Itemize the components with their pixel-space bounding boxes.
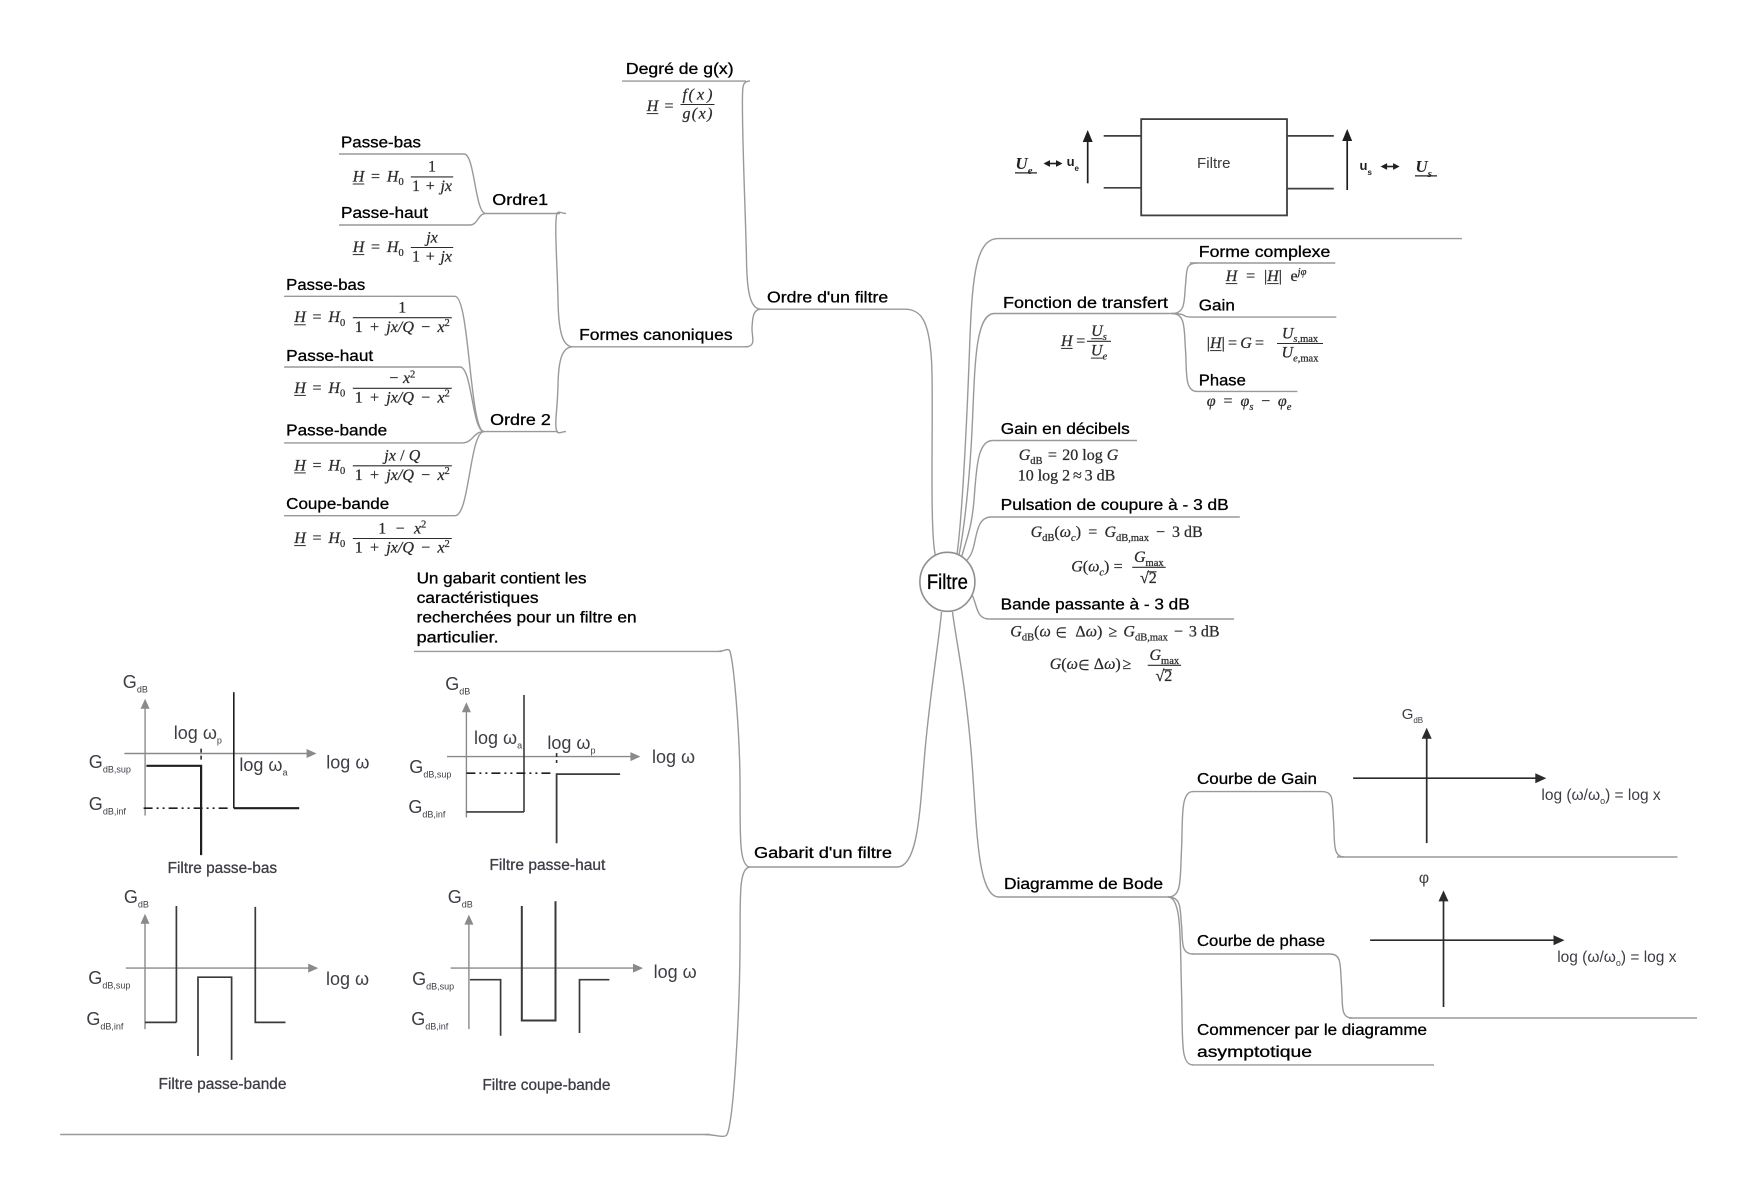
- svg-text:H: H: [1225, 268, 1239, 285]
- gabarit coupe-bande left pass boundary: [470, 980, 501, 1036]
- svg-text:−: −: [421, 390, 430, 407]
- edge Filtre to Bande passante: [968, 588, 989, 620]
- edge Gabarit to gabarit plots image node: [705, 867, 750, 1136]
- svg-text:Commencer par le diagramme: Commencer par le diagramme: [1197, 1022, 1427, 1039]
- svg-text:x: x: [436, 467, 444, 484]
- svg-text:+: +: [370, 540, 379, 557]
- underline node Commencer par le diagramme asymptotique: [1192, 1064, 1434, 1066]
- svg-text:φ: φ: [1241, 393, 1250, 410]
- svg-text:dB: dB: [1042, 533, 1054, 544]
- svg-text:Gain: Gain: [1199, 298, 1235, 315]
- svg-text:ω: ω: [1088, 559, 1099, 576]
- svg-text:e: e: [1287, 402, 1292, 413]
- svg-text:3 dB: 3 dB: [1189, 624, 1220, 641]
- svg-text:caractéristiques: caractéristiques: [417, 590, 539, 607]
- svg-text:Degré de g(x): Degré de g(x): [626, 61, 734, 78]
- svg-text:GdB: GdB: [448, 887, 473, 910]
- gabarit passe-bas tick log wp: [200, 749, 202, 762]
- edge Ordre1 to Passe-bas (ordre 1): [464, 154, 486, 214]
- svg-text:0: 0: [398, 177, 403, 188]
- svg-text:jx/Q: jx/Q: [384, 319, 414, 336]
- svg-text:(x): (x): [689, 86, 713, 103]
- edge Ordre d'un filtre to Degre de g(x): [742, 81, 761, 309]
- svg-text:Filtre coupe-bande: Filtre coupe-bande: [482, 1077, 610, 1094]
- svg-text:GdB,inf: GdB,inf: [89, 794, 127, 817]
- gabarit passe-bas stop-band horizontal: [234, 807, 299, 809]
- svg-text:Gain en décibels: Gain en décibels: [1001, 421, 1130, 438]
- svg-text:GdB: GdB: [123, 672, 148, 695]
- svg-text:Coupe-bande: Coupe-bande: [286, 496, 389, 513]
- svg-text:H: H: [293, 380, 307, 397]
- svg-text:jx: jx: [438, 178, 452, 195]
- gabarit passe-bande pass window: [198, 977, 232, 1060]
- gabarit coupe-bande stop window: [522, 901, 556, 1020]
- svg-text:≥: ≥: [1108, 624, 1117, 641]
- svg-text:log (ω/ωo) = log x: log (ω/ωo) = log x: [1541, 787, 1661, 806]
- svg-text:0: 0: [340, 318, 345, 329]
- edge Ordre 2 to Coupe-bande: [455, 432, 484, 516]
- svg-text:x: x: [436, 319, 444, 336]
- svg-text:log ω: log ω: [654, 962, 697, 982]
- svg-text:Passe-bande: Passe-bande: [286, 423, 387, 440]
- underline node Courbe de Gain: [1192, 791, 1322, 793]
- svg-text:e: e: [1102, 351, 1107, 362]
- svg-text:Phase: Phase: [1199, 372, 1246, 389]
- svg-text:1: 1: [398, 300, 406, 317]
- underline image node block diagram: [998, 238, 1462, 240]
- underline image node gain curve: [1337, 856, 1678, 858]
- svg-text:H: H: [293, 530, 307, 547]
- gabarit coupe-bande right pass boundary: [580, 980, 610, 1033]
- gabarit passe-haut vertical axis: [465, 711, 467, 817]
- edge Filtre to Fonction de transfert: [959, 314, 995, 556]
- underline node Diagramme de Bode: [999, 896, 1168, 898]
- gabarit passe-bas stop-band vertical at wa: [233, 692, 235, 808]
- gabarit passe-haut stop-band vertical at wa: [523, 695, 525, 812]
- svg-text:20 log: 20 log: [1062, 447, 1102, 464]
- formula passe-haut ordre1 fraction: [411, 247, 453, 249]
- svg-text:φ: φ: [1278, 393, 1287, 410]
- svg-text:Courbe de phase: Courbe de phase: [1197, 933, 1325, 950]
- svg-text:max: max: [1300, 354, 1319, 365]
- svg-text:recherchées pour un filtre en: recherchées pour un filtre en: [417, 610, 637, 627]
- svg-text:jφ: jφ: [1296, 267, 1307, 278]
- svg-text:0: 0: [340, 389, 345, 400]
- svg-text:0: 0: [398, 248, 403, 259]
- svg-text:): ): [1076, 524, 1081, 541]
- svg-text:Forme complexe: Forme complexe: [1199, 244, 1331, 261]
- svg-text:−: −: [421, 319, 430, 336]
- gabarit passe-haut dash-dot GdBsup level: [466, 772, 553, 774]
- svg-text:G: G: [1240, 335, 1252, 352]
- svg-text:3 dB: 3 dB: [1085, 468, 1116, 485]
- block diagram double arrow right: [1386, 166, 1394, 168]
- svg-text:Formes canoniques: Formes canoniques: [579, 327, 733, 344]
- gabarit coupe-bande horizontal axis: [451, 967, 634, 969]
- svg-text:log (ω/ωo) = log x: log (ω/ωo) = log x: [1557, 949, 1677, 968]
- edge Ordre1 to Passe-haut (ordre 1): [470, 214, 486, 226]
- svg-text:≈: ≈: [1073, 468, 1082, 485]
- bode gain plot horizontal axis: [1353, 777, 1536, 779]
- svg-text:log ωa: log ωa: [474, 728, 522, 751]
- edge Ordre 2 to Passe-bas (ordre 2): [455, 296, 484, 431]
- svg-text:/: /: [400, 448, 405, 465]
- formula degre fraction: [681, 104, 715, 106]
- bode phase plot vertical axis: [1443, 900, 1445, 1007]
- svg-text:particulier.: particulier.: [417, 629, 499, 646]
- svg-text:−: −: [421, 467, 430, 484]
- svg-text:log ω: log ω: [326, 753, 369, 773]
- svg-text:max: max: [1161, 656, 1180, 667]
- svg-text:log ω: log ω: [652, 747, 695, 767]
- svg-text:e: e: [1291, 268, 1298, 285]
- svg-text:ω: ω: [1060, 524, 1071, 541]
- edge Filtre to Gain en decibels: [962, 441, 993, 558]
- block diagram output wire top: [1287, 135, 1334, 137]
- underline node Forme complexe: [1190, 262, 1336, 264]
- svg-text:1: 1: [355, 540, 363, 557]
- svg-text:Q: Q: [409, 448, 421, 465]
- svg-text:≥: ≥: [1122, 656, 1131, 673]
- underline node Passe-bande: [284, 442, 462, 444]
- svg-text:log ω: log ω: [326, 969, 369, 989]
- gabarit passe-bas dash-dot GdBinf level: [144, 807, 229, 809]
- svg-text:GdB,inf: GdB,inf: [408, 797, 446, 820]
- underline node Courbe de phase: [1192, 953, 1330, 955]
- underline node Degre de g(x): [622, 80, 746, 82]
- svg-text:dB: dB: [1030, 456, 1042, 467]
- svg-text:e,: e,: [1293, 354, 1300, 365]
- svg-text:max: max: [1300, 334, 1319, 345]
- svg-text:=: =: [313, 380, 322, 397]
- svg-text:): ): [1097, 624, 1102, 641]
- block diagram output voltage arrow us: [1346, 140, 1348, 190]
- underline node Pulsation de coupure: [991, 516, 1240, 518]
- formula passe-haut ordre2 fraction: [353, 387, 452, 389]
- svg-text:1: 1: [412, 249, 420, 266]
- svg-text:−: −: [396, 520, 405, 537]
- svg-text:=: =: [313, 530, 322, 547]
- svg-text:): ): [1104, 559, 1109, 576]
- svg-text:Ordre d'un filtre: Ordre d'un filtre: [767, 289, 888, 306]
- svg-text:G: G: [1104, 524, 1116, 541]
- bode phase plot horizontal axis: [1370, 939, 1554, 941]
- edge Diagramme de Bode to Commencer par le diagramme: [1168, 897, 1193, 1065]
- edge Filtre to Pulsation de coupure: [965, 517, 992, 563]
- svg-text:=: =: [1114, 559, 1123, 576]
- edge Diagramme de Bode to Courbe de phase: [1168, 897, 1193, 954]
- svg-text:us: us: [1360, 158, 1373, 177]
- svg-text:Ordre1: Ordre1: [492, 192, 548, 209]
- block diagram input voltage arrow ue: [1087, 141, 1089, 183]
- formula Us/Ue fraction: [1087, 340, 1111, 342]
- svg-text:Diagramme de Bode: Diagramme de Bode: [1004, 876, 1163, 893]
- svg-text:s: s: [1249, 402, 1253, 413]
- svg-text:Δ: Δ: [1094, 656, 1104, 673]
- svg-text:G: G: [1123, 624, 1135, 641]
- svg-text:dB: dB: [1022, 632, 1034, 643]
- underline node Passe-bas (ordre 2): [284, 295, 455, 297]
- block diagram input wire top: [1104, 135, 1142, 137]
- svg-text:+: +: [370, 390, 379, 407]
- svg-text:GdB: GdB: [1402, 706, 1423, 725]
- svg-text:max: max: [1146, 558, 1165, 569]
- svg-text:=: =: [371, 168, 380, 185]
- svg-text:1: 1: [428, 159, 436, 176]
- svg-text:g: g: [683, 106, 691, 123]
- svg-text:Ue: Ue: [1015, 154, 1032, 177]
- svg-text:φ: φ: [1419, 870, 1429, 887]
- central node Filtre (ellipse): [920, 552, 975, 611]
- svg-text:jx: jx: [382, 448, 396, 465]
- edge Filtre to Diagramme de Bode: [953, 612, 1000, 897]
- underline node Passe-haut (ordre 2): [284, 366, 460, 368]
- underline node Ordre1: [486, 213, 560, 215]
- svg-text:1: 1: [378, 520, 386, 537]
- svg-text:GdB,inf: GdB,inf: [411, 1009, 449, 1032]
- underline node Gain: [1196, 316, 1337, 318]
- svg-text:dB,max: dB,max: [1116, 533, 1150, 544]
- svg-text:log ωa: log ωa: [239, 755, 287, 778]
- svg-text:=: =: [1255, 335, 1264, 352]
- gabarit passe-bas horizontal axis: [124, 753, 307, 755]
- svg-text:jx/Q: jx/Q: [384, 540, 414, 557]
- svg-text:G: G: [1107, 447, 1119, 464]
- edge Gabarit to paragraph node: [718, 650, 750, 867]
- gabarit passe-haut tick log wp: [556, 753, 558, 763]
- underline image node phase curve: [1349, 1017, 1697, 1019]
- underline image node gabarit plots: [60, 1134, 710, 1136]
- svg-text:2: 2: [445, 318, 450, 329]
- svg-text:=: =: [1228, 335, 1237, 352]
- svg-text:0: 0: [340, 539, 345, 550]
- underline node Gabarit d'un filtre: [750, 866, 897, 868]
- svg-text:0: 0: [340, 466, 345, 477]
- edge Formes canoniques to Ordre 2: [556, 347, 573, 433]
- svg-text:ω: ω: [1104, 656, 1115, 673]
- svg-text:Pulsation de coupure à - 3 dB: Pulsation de coupure à - 3 dB: [1001, 497, 1229, 514]
- svg-text:H: H: [352, 168, 366, 185]
- svg-text:G: G: [1031, 524, 1043, 541]
- svg-text:G: G: [1050, 656, 1062, 673]
- svg-text:2: 2: [421, 520, 426, 531]
- svg-text:): ): [1115, 656, 1120, 673]
- svg-text:|: |: [1222, 335, 1225, 352]
- formula Gmax/sqrt2 fraction 2: [1148, 664, 1181, 666]
- svg-text:2: 2: [445, 389, 450, 400]
- underline node Coupe-bande: [284, 515, 455, 517]
- formula Gmax/sqrt2 fraction: [1132, 566, 1166, 568]
- svg-text:log ωp: log ωp: [174, 723, 222, 746]
- gabarit passe-haut horizontal axis: [447, 756, 631, 758]
- svg-text:=: =: [1246, 268, 1255, 285]
- svg-text:H: H: [646, 98, 660, 115]
- svg-text:Passe-bas: Passe-bas: [286, 277, 365, 294]
- underline node Bande passante: [989, 618, 1234, 620]
- svg-text:2: 2: [445, 539, 450, 550]
- svg-text:(x): (x): [692, 106, 713, 123]
- underline node Passe-haut (ordre 1): [339, 224, 470, 226]
- svg-text:−: −: [389, 370, 398, 387]
- svg-text:x: x: [413, 520, 421, 537]
- svg-text:10 log 2: 10 log 2: [1018, 468, 1070, 485]
- svg-text:Un gabarit contient les: Un gabarit contient les: [417, 570, 587, 587]
- gabarit passe-haut stop-band horizontal GdBinf: [466, 811, 524, 813]
- svg-text:G: G: [1010, 624, 1022, 641]
- edge Diagramme de Bode to Courbe de Gain: [1168, 792, 1193, 897]
- formula passe-bas ordre1 fraction: [411, 176, 453, 178]
- svg-text:GdB,sup: GdB,sup: [88, 968, 130, 991]
- block diagram input wire bottom: [1104, 187, 1142, 189]
- formula coupe-bande fraction: [353, 538, 452, 540]
- svg-text:x: x: [402, 370, 410, 387]
- svg-text:1: 1: [412, 178, 420, 195]
- svg-text:Passe-haut: Passe-haut: [341, 205, 429, 222]
- svg-text:=: =: [1224, 393, 1233, 410]
- block diagram: filter box: [1141, 119, 1287, 215]
- svg-text:log ωp: log ωp: [547, 733, 595, 756]
- svg-text:GdB: GdB: [124, 887, 149, 910]
- svg-text:dB,max: dB,max: [1135, 632, 1169, 643]
- svg-text:jx: jx: [424, 229, 438, 246]
- svg-text:φ: φ: [1207, 393, 1216, 410]
- svg-text:jx/Q: jx/Q: [384, 390, 414, 407]
- underline node Ordre 2: [484, 431, 558, 433]
- gabarit passe-bande horizontal axis: [126, 967, 309, 969]
- svg-text:Courbe de Gain: Courbe de Gain: [1197, 771, 1317, 788]
- svg-text:√2: √2: [1140, 570, 1157, 587]
- gabarit passe-bas pass-band limit: [146, 766, 201, 855]
- underline paragraph node: [414, 650, 722, 652]
- svg-text:Bande passante à - 3 dB: Bande passante à - 3 dB: [1001, 597, 1190, 614]
- edge Ordre 2 to Passe-haut (ordre 2): [460, 367, 484, 432]
- svg-text:jx: jx: [438, 249, 452, 266]
- svg-text:=: =: [371, 239, 380, 256]
- svg-text:ue: ue: [1067, 154, 1080, 173]
- edge Fonction de transfert to Gain: [1172, 314, 1196, 318]
- edge Filtre to Gabarit d'un filtre: [897, 612, 942, 867]
- underline node Formes canoniques: [573, 346, 748, 348]
- svg-text:=: =: [313, 309, 322, 326]
- svg-text:G: G: [1134, 549, 1146, 566]
- svg-text:=: =: [1048, 447, 1057, 464]
- svg-text:G: G: [1019, 447, 1031, 464]
- svg-text:2: 2: [410, 369, 415, 380]
- svg-text:+: +: [426, 249, 435, 266]
- svg-text:Filtre: Filtre: [1197, 155, 1231, 172]
- svg-text:Filtre passe-bas: Filtre passe-bas: [168, 860, 278, 877]
- svg-text:Ordre 2: Ordre 2: [490, 412, 551, 429]
- svg-text:Filtre: Filtre: [927, 571, 968, 594]
- svg-text:ω: ω: [1086, 624, 1097, 641]
- svg-text:x: x: [436, 390, 444, 407]
- formula passe-bande fraction: [353, 465, 452, 467]
- svg-text:−: −: [421, 540, 430, 557]
- svg-text:=: =: [313, 457, 322, 474]
- svg-text:−: −: [1174, 624, 1183, 641]
- svg-text:Δ: Δ: [1075, 624, 1085, 641]
- edge Fonction de transfert to Phase: [1172, 314, 1197, 392]
- svg-text:−: −: [1261, 393, 1270, 410]
- formula passe-bas ordre2 fraction: [353, 317, 452, 319]
- underline node Passe-bas (ordre 1): [339, 153, 464, 155]
- bode gain plot vertical axis: [1426, 738, 1428, 843]
- svg-text:GdB,inf: GdB,inf: [86, 1009, 124, 1032]
- edge Filtre to Ordre d'un filtre: [904, 309, 935, 556]
- svg-text:1: 1: [355, 319, 363, 336]
- svg-text:ω: ω: [1067, 656, 1078, 673]
- underline node Ordre d'un filtre: [761, 308, 904, 310]
- svg-text:ω: ω: [1039, 624, 1050, 641]
- svg-text:=: =: [1076, 333, 1085, 350]
- gabarit passe-bande right stop boundary: [255, 907, 285, 1023]
- svg-text:+: +: [370, 319, 379, 336]
- svg-text:=: =: [1088, 524, 1097, 541]
- svg-text:GdB,sup: GdB,sup: [89, 752, 131, 775]
- svg-text:s: s: [1103, 332, 1107, 343]
- block diagram double arrow left: [1049, 163, 1057, 165]
- svg-text:GdB: GdB: [445, 674, 470, 697]
- svg-text:jx/Q: jx/Q: [384, 467, 414, 484]
- gabarit passe-bande left stop boundary: [145, 906, 176, 1022]
- svg-text:s,: s,: [1293, 334, 1300, 345]
- block diagram output wire bottom: [1287, 188, 1334, 190]
- svg-text:Gabarit d'un filtre: Gabarit d'un filtre: [754, 845, 892, 862]
- edge Filtre to block-diagram image node: [957, 239, 998, 554]
- svg-text:H: H: [293, 457, 307, 474]
- svg-text:x: x: [436, 540, 444, 557]
- svg-text:=: =: [664, 98, 673, 115]
- edge Ordre 2 to Passe-bande: [462, 432, 484, 443]
- gabarit passe-haut pass-band limit: [557, 774, 621, 843]
- svg-text:H: H: [1060, 333, 1074, 350]
- svg-text:G: G: [1150, 647, 1162, 664]
- gabarit passe-bande vertical axis: [144, 923, 146, 1029]
- svg-text:3 dB: 3 dB: [1172, 524, 1203, 541]
- svg-text:Passe-haut: Passe-haut: [286, 348, 374, 365]
- svg-text:1: 1: [355, 390, 363, 407]
- underline node Phase: [1196, 390, 1298, 392]
- svg-text:1: 1: [355, 467, 363, 484]
- svg-text:2: 2: [445, 466, 450, 477]
- svg-text:+: +: [370, 467, 379, 484]
- edge Courbe de Gain to gain image node: [1322, 792, 1344, 857]
- svg-text:√2: √2: [1156, 668, 1173, 685]
- edge Formes canoniques to Ordre1: [556, 212, 573, 347]
- edge Fonction de transfert to Forme complexe: [1172, 263, 1197, 314]
- svg-text:−: −: [1156, 524, 1165, 541]
- underline node Gain en decibels: [993, 440, 1137, 442]
- svg-text:Us: Us: [1415, 157, 1432, 180]
- gabarit passe-bas vertical axis: [144, 708, 146, 816]
- svg-text:Passe-bas: Passe-bas: [341, 135, 421, 152]
- svg-text:H: H: [293, 309, 307, 326]
- svg-text:GdB,sup: GdB,sup: [409, 757, 451, 780]
- svg-text:Fonction de transfert: Fonction de transfert: [1003, 295, 1169, 312]
- svg-text:G: G: [1071, 559, 1083, 576]
- svg-text:+: +: [426, 178, 435, 195]
- svg-text:Filtre passe-haut: Filtre passe-haut: [489, 857, 606, 874]
- svg-text:GdB,sup: GdB,sup: [412, 969, 454, 992]
- svg-text:|: |: [1279, 268, 1282, 285]
- svg-text:Filtre passe-bande: Filtre passe-bande: [159, 1076, 287, 1093]
- svg-text:H: H: [352, 239, 366, 256]
- gabarit coupe-bande vertical axis: [468, 924, 470, 1030]
- edge Courbe de phase to phase image node: [1330, 954, 1352, 1018]
- underline node Fonction de transfert: [995, 313, 1173, 315]
- formula gain fraction: [1277, 343, 1323, 345]
- edge Ordre d'un filtre to Formes canoniques: [745, 309, 761, 347]
